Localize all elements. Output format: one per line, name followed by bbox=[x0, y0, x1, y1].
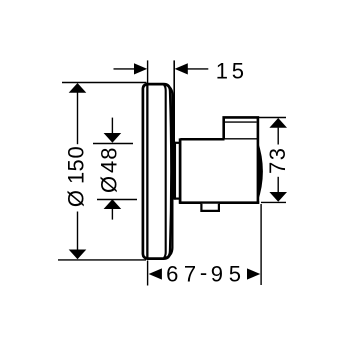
svg-text:1: 1 bbox=[64, 172, 89, 184]
valve body top edge bbox=[180, 138, 224, 141]
dimension D48: down arrow bbox=[104, 133, 122, 143]
escutcheon plate back rim contour line bbox=[164, 85, 166, 258]
svg-text:Ø: Ø bbox=[96, 176, 121, 193]
dimension 15: right shaft bbox=[187, 68, 208, 70]
dimension D150: top extension line bbox=[62, 82, 147, 84]
svg-text:0: 0 bbox=[64, 146, 89, 158]
dimension 73: top extension line bbox=[259, 117, 286, 119]
svg-text:6: 6 bbox=[166, 261, 178, 286]
escutcheon plate back rim second contour bbox=[166, 85, 172, 257]
dimension 73: lower shaft bbox=[277, 177, 279, 192]
svg-text:5: 5 bbox=[64, 159, 89, 171]
svg-text:1: 1 bbox=[216, 58, 228, 83]
dimension D48: bottom extension line bbox=[97, 199, 137, 201]
dimension D150: lower shaft bbox=[77, 212, 79, 250]
dimension 73: up arrow bbox=[269, 118, 287, 128]
svg-text:Ø: Ø bbox=[64, 190, 89, 207]
sleeve left edge bbox=[173, 142, 176, 200]
dimension 15: left-pointing arrow bbox=[175, 63, 188, 74]
dimension D150: label bbox=[64, 190, 89, 207]
dimension 67-95: right extension line bbox=[260, 204, 262, 285]
svg-text:9: 9 bbox=[211, 261, 223, 286]
dimension 15: right-pointing arrow bbox=[134, 63, 147, 74]
dimension 15: right extension line bbox=[173, 60, 175, 142]
valve body right edge (bulged) bbox=[257, 140, 260, 203]
escutcheon plate outer silhouette bbox=[143, 84, 172, 259]
escutcheon plate front face inner line bbox=[146, 85, 148, 259]
svg-text:5: 5 bbox=[229, 261, 241, 286]
dimension D150: down arrow bbox=[69, 250, 87, 260]
dimension D150: upper shaft bbox=[77, 93, 79, 145]
svg-text:7: 7 bbox=[265, 162, 290, 174]
dimension D48: upper shaft bbox=[111, 118, 113, 134]
valve body left edge bbox=[179, 138, 182, 203]
valve body bottom edge bbox=[179, 201, 259, 204]
dimension 73: upper shaft bbox=[277, 128, 279, 145]
svg-text:-: - bbox=[200, 260, 207, 285]
sleeve bottom edge bbox=[174, 198, 181, 200]
top handle inner contour line bbox=[225, 121, 257, 123]
svg-text:4: 4 bbox=[96, 161, 121, 173]
svg-text:3: 3 bbox=[265, 148, 290, 160]
dimension 73: down arrow bbox=[269, 192, 287, 202]
dimension D48: up arrow bbox=[104, 199, 122, 209]
dimension D48: label bbox=[96, 176, 121, 193]
dimension D48: top extension line bbox=[93, 143, 133, 145]
bottom notch on body bbox=[201, 204, 219, 211]
dimension 15: left shaft bbox=[114, 68, 136, 70]
sleeve top edge bbox=[174, 142, 180, 144]
dimension 67-95: left extension line bbox=[147, 261, 149, 286]
dimension 15: left extension line bbox=[147, 60, 149, 83]
svg-text:5: 5 bbox=[232, 58, 244, 83]
svg-text:7: 7 bbox=[184, 261, 196, 286]
dimension D150: up arrow bbox=[69, 83, 87, 93]
valve body top edge behind top handle bbox=[225, 138, 258, 140]
dimension 67-95: left-pointing arrow bbox=[149, 268, 162, 279]
dimension D48: lower shaft bbox=[111, 209, 113, 220]
dimension D150: bottom extension line bbox=[58, 259, 146, 261]
svg-text:8: 8 bbox=[96, 147, 121, 159]
dimension 73: bottom extension line bbox=[261, 201, 286, 203]
dimension 73: label bbox=[265, 162, 290, 174]
dimension 67-95: right-pointing arrow bbox=[247, 268, 260, 279]
top handle rectangle bbox=[224, 117, 258, 139]
